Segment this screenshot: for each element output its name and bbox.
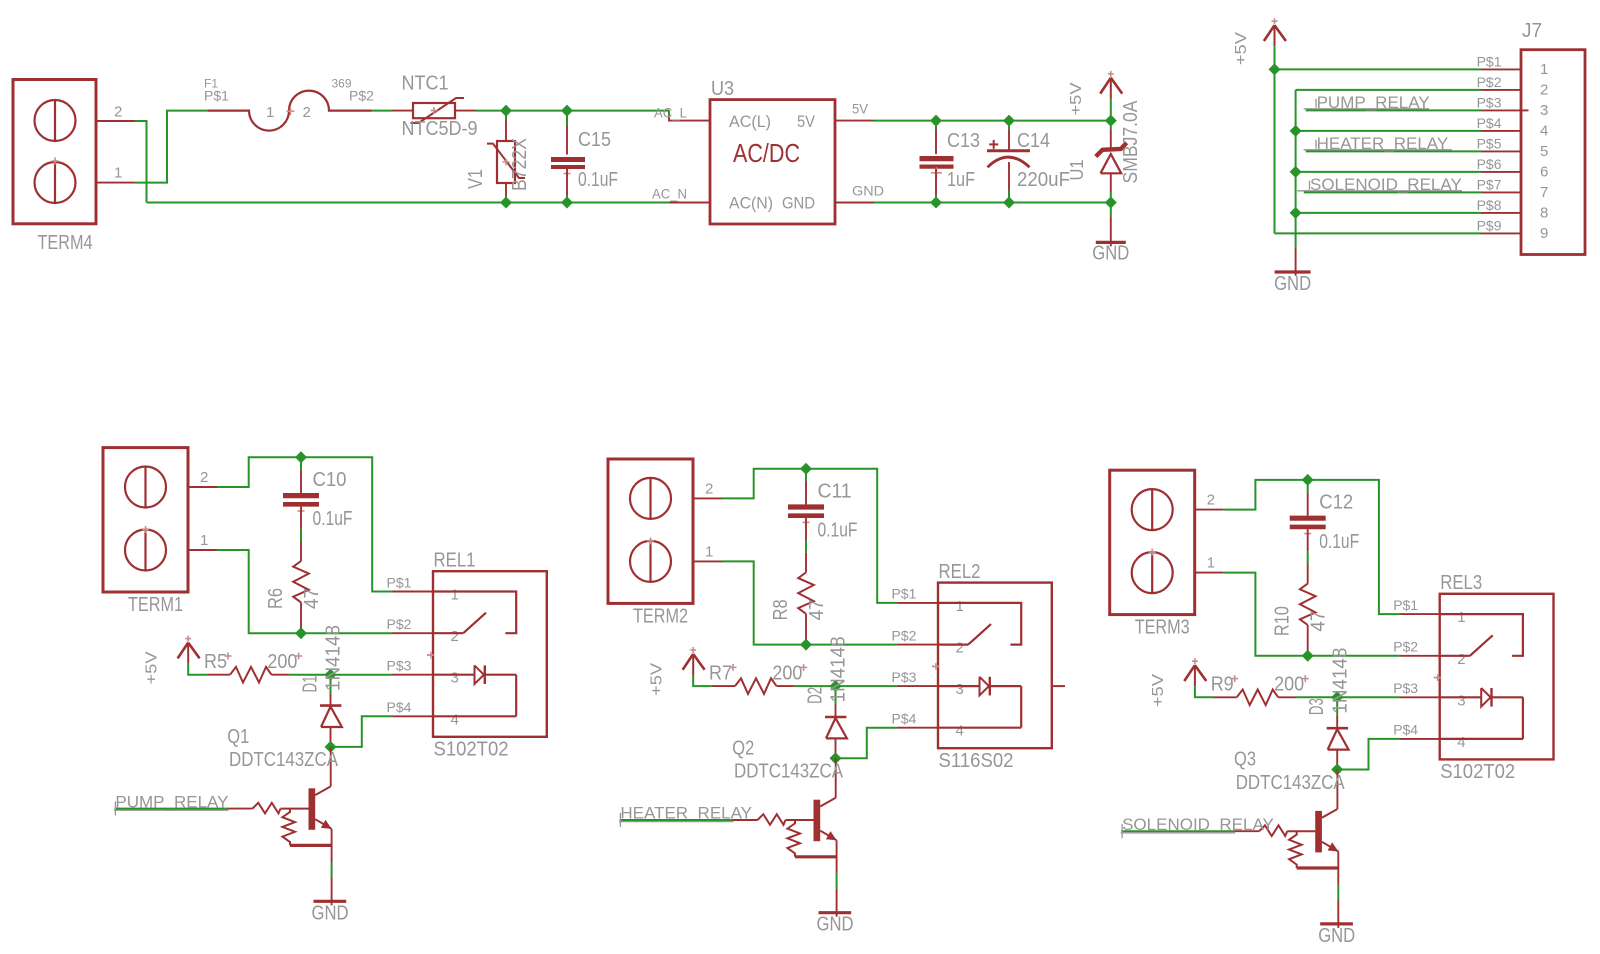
svg-text:TERM1: TERM1	[128, 594, 183, 616]
svg-text:5V: 5V	[852, 101, 869, 117]
svg-text:PUMP_RELAY: PUMP_RELAY	[1317, 93, 1430, 112]
svg-text:D3: D3	[1306, 698, 1328, 715]
svg-text:GND: GND	[817, 914, 854, 936]
svg-text:GND: GND	[852, 183, 884, 199]
svg-text:C15: C15	[578, 129, 611, 151]
svg-text:C12: C12	[1319, 492, 1353, 514]
svg-text:PUMP_RELAY: PUMP_RELAY	[115, 792, 228, 811]
svg-text:S116S02: S116S02	[939, 750, 1014, 772]
svg-text:2: 2	[1207, 492, 1215, 509]
svg-text:J7: J7	[1522, 20, 1542, 42]
svg-text:5: 5	[1540, 143, 1548, 160]
svg-text:R5: R5	[204, 651, 227, 673]
svg-text:4: 4	[1540, 123, 1548, 140]
svg-text:P$7: P$7	[1477, 176, 1502, 192]
svg-text:Q2: Q2	[732, 737, 754, 759]
svg-text:NTC1: NTC1	[402, 72, 449, 94]
svg-text:P$2: P$2	[349, 88, 374, 104]
svg-text:0.1uF: 0.1uF	[578, 169, 618, 191]
svg-text:P$8: P$8	[1477, 197, 1502, 213]
svg-text:0.1uF: 0.1uF	[818, 520, 858, 542]
svg-text:4: 4	[451, 711, 459, 728]
svg-text:3: 3	[1540, 102, 1548, 119]
svg-text:9: 9	[1540, 225, 1548, 242]
svg-text:0.1uF: 0.1uF	[1319, 531, 1359, 553]
svg-text:3: 3	[956, 681, 964, 698]
svg-text:U3: U3	[711, 78, 734, 100]
svg-text:P$3: P$3	[387, 658, 412, 674]
svg-text:GND: GND	[1318, 925, 1355, 947]
svg-text:1: 1	[1457, 609, 1465, 626]
svg-text:2: 2	[200, 469, 208, 486]
svg-text:P$6: P$6	[1477, 156, 1502, 172]
svg-text:R7: R7	[709, 662, 732, 684]
svg-text:P$4: P$4	[387, 699, 412, 715]
svg-text:SOLENOID_RELAY: SOLENOID_RELAY	[1310, 175, 1462, 194]
svg-text:GND: GND	[1092, 243, 1129, 265]
svg-text:P$3: P$3	[1477, 94, 1502, 110]
svg-text:GND: GND	[782, 194, 815, 213]
svg-text:DDTC143ZCA: DDTC143ZCA	[1236, 772, 1346, 794]
svg-text:REL1: REL1	[434, 550, 476, 572]
svg-text:DDTC143ZCA: DDTC143ZCA	[734, 761, 844, 783]
svg-text:2: 2	[956, 640, 964, 657]
svg-text:C13: C13	[947, 130, 980, 152]
svg-text:GND: GND	[1274, 273, 1311, 295]
svg-text:HEATER_RELAY: HEATER_RELAY	[1317, 134, 1449, 153]
svg-text:5V: 5V	[797, 112, 816, 131]
svg-text:P$1: P$1	[1393, 597, 1418, 613]
svg-text:P$9: P$9	[1477, 217, 1502, 233]
svg-text:0.1uF: 0.1uF	[313, 508, 353, 530]
svg-text:1N4148: 1N4148	[323, 625, 345, 691]
svg-text:2: 2	[1540, 82, 1548, 99]
svg-text:SOLENOID_RELAY: SOLENOID_RELAY	[1122, 815, 1274, 834]
svg-text:SMBJ7.0A: SMBJ7.0A	[1120, 100, 1142, 184]
svg-text:1: 1	[1207, 555, 1215, 572]
svg-text:AC_N: AC_N	[652, 186, 687, 202]
svg-text:U1: U1	[1067, 160, 1087, 181]
svg-text:1: 1	[266, 104, 274, 121]
svg-text:P$2: P$2	[387, 616, 412, 632]
svg-text:AC_L: AC_L	[654, 105, 687, 121]
svg-text:P$2: P$2	[1393, 639, 1418, 655]
svg-text:DDTC143ZCA: DDTC143ZCA	[229, 749, 339, 771]
svg-text:Q1: Q1	[227, 726, 249, 748]
svg-text:1uF: 1uF	[947, 169, 975, 191]
svg-text:Q3: Q3	[1234, 749, 1256, 771]
svg-text:P$2: P$2	[892, 627, 917, 643]
svg-text:TERM4: TERM4	[38, 232, 93, 254]
svg-text:47: 47	[301, 588, 323, 609]
svg-text:TERM3: TERM3	[1135, 617, 1190, 639]
svg-text:47: 47	[806, 599, 828, 620]
svg-text:4: 4	[956, 723, 964, 740]
svg-text:+5V: +5V	[1233, 32, 1250, 65]
svg-text:P$5: P$5	[1477, 135, 1502, 151]
svg-text:220uF: 220uF	[1017, 169, 1070, 191]
svg-text:1: 1	[1540, 61, 1548, 78]
svg-text:D1: D1	[300, 676, 322, 693]
svg-text:P$4: P$4	[892, 711, 917, 727]
svg-text:1: 1	[705, 543, 713, 560]
svg-text:1N4148: 1N4148	[1329, 648, 1351, 714]
svg-text:GND: GND	[312, 902, 349, 924]
svg-text:+5V: +5V	[649, 663, 666, 696]
svg-text:2: 2	[114, 103, 122, 120]
svg-text:4: 4	[1457, 734, 1465, 751]
svg-text:R6: R6	[265, 588, 287, 609]
svg-text:200: 200	[772, 662, 802, 684]
svg-text:3: 3	[451, 670, 459, 687]
svg-text:47: 47	[1308, 611, 1330, 632]
svg-text:200: 200	[267, 651, 297, 673]
svg-text:S102T02: S102T02	[1440, 761, 1515, 783]
svg-text:2: 2	[1457, 651, 1465, 668]
svg-text:P$1: P$1	[892, 586, 917, 602]
svg-text:R9: R9	[1211, 674, 1234, 696]
svg-text:REL3: REL3	[1440, 572, 1482, 594]
svg-text:V1: V1	[465, 169, 487, 189]
svg-text:8: 8	[1540, 205, 1548, 222]
svg-text:HEATER_RELAY: HEATER_RELAY	[620, 804, 752, 823]
svg-text:+5V: +5V	[1068, 82, 1085, 115]
svg-text:P$1: P$1	[387, 574, 412, 590]
svg-text:P$4: P$4	[1477, 115, 1502, 131]
svg-text:1N4148: 1N4148	[828, 636, 850, 702]
svg-text:P$3: P$3	[1393, 680, 1418, 696]
svg-text:B722X: B722X	[509, 138, 531, 191]
svg-text:+5V: +5V	[144, 651, 161, 684]
svg-text:+5V: +5V	[1150, 674, 1167, 707]
svg-text:C10: C10	[313, 469, 347, 491]
svg-text:1: 1	[200, 532, 208, 549]
svg-text:AC(L): AC(L)	[729, 112, 771, 131]
svg-text:R10: R10	[1272, 606, 1294, 636]
svg-text:1: 1	[451, 587, 459, 604]
svg-text:TERM2: TERM2	[633, 605, 688, 627]
svg-text:2: 2	[451, 628, 459, 645]
svg-text:200: 200	[1274, 674, 1304, 696]
svg-text:REL2: REL2	[939, 561, 981, 583]
svg-text:1: 1	[956, 598, 964, 615]
svg-text:6: 6	[1540, 164, 1548, 181]
svg-text:7: 7	[1540, 184, 1548, 201]
svg-text:R8: R8	[770, 599, 792, 620]
svg-text:P$4: P$4	[1393, 722, 1418, 738]
svg-text:2: 2	[303, 104, 311, 121]
svg-text:P$1: P$1	[1477, 53, 1502, 69]
svg-text:AC/DC: AC/DC	[733, 138, 800, 168]
svg-text:P$1: P$1	[204, 88, 229, 104]
svg-text:NTC5D-9: NTC5D-9	[402, 118, 478, 140]
svg-text:1: 1	[114, 165, 122, 182]
svg-text:3: 3	[1457, 692, 1465, 709]
svg-text:2: 2	[705, 480, 713, 497]
svg-text:C11: C11	[818, 480, 852, 502]
svg-text:C14: C14	[1017, 130, 1050, 152]
svg-text:P$3: P$3	[892, 669, 917, 685]
svg-text:AC(N): AC(N)	[729, 194, 773, 213]
svg-text:S102T02: S102T02	[434, 738, 509, 760]
svg-text:D2: D2	[805, 687, 827, 704]
svg-text:P$2: P$2	[1477, 74, 1502, 90]
